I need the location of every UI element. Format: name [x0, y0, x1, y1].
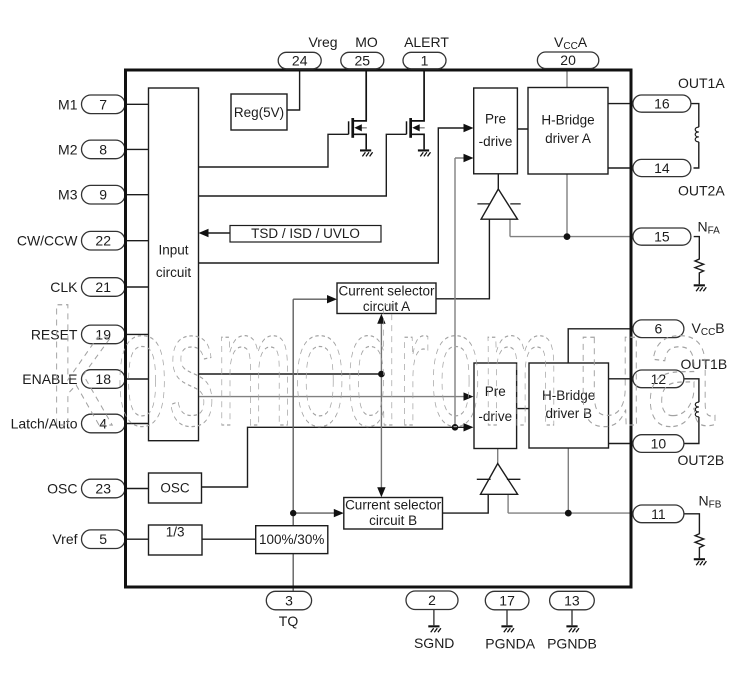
svg-text:5: 5	[99, 531, 107, 547]
svg-text:TSD / ISD / UVLO: TSD / ISD / UVLO	[251, 226, 360, 241]
svg-text:11: 11	[651, 506, 666, 522]
svg-text:23: 23	[95, 481, 111, 497]
svg-text:2: 2	[428, 592, 436, 608]
svg-text:PGNDA: PGNDA	[485, 636, 535, 652]
svg-text:14: 14	[654, 160, 670, 176]
svg-text:22: 22	[95, 233, 111, 249]
svg-text:7: 7	[99, 96, 107, 112]
svg-text:Reg(5V): Reg(5V)	[234, 105, 284, 120]
svg-text:OUT2A: OUT2A	[678, 183, 725, 199]
svg-text:9: 9	[99, 187, 107, 203]
svg-text:OSC: OSC	[160, 481, 190, 496]
svg-text:osmodrom: osmodrom	[116, 276, 560, 461]
svg-text:M3: M3	[58, 187, 78, 203]
svg-text:Current selector: Current selector	[345, 498, 442, 513]
svg-text:Input: Input	[158, 243, 188, 258]
svg-text:ua: ua	[575, 276, 716, 461]
svg-text:15: 15	[654, 229, 670, 245]
svg-text:Pre: Pre	[485, 112, 506, 127]
svg-text:k: k	[48, 276, 113, 461]
svg-text:driver A: driver A	[545, 131, 591, 146]
svg-text:VCCA: VCCA	[554, 34, 588, 52]
svg-text:M2: M2	[58, 141, 78, 157]
svg-text:CW/CCW: CW/CCW	[17, 233, 78, 249]
svg-text:TQ: TQ	[279, 613, 299, 629]
svg-text:M1: M1	[58, 96, 78, 112]
svg-text:OUT1A: OUT1A	[678, 75, 725, 91]
svg-text:Vref: Vref	[52, 531, 77, 547]
svg-text:PGNDB: PGNDB	[547, 636, 597, 652]
svg-text:Vreg: Vreg	[308, 34, 337, 50]
svg-text:-drive: -drive	[479, 134, 513, 149]
svg-text:13: 13	[564, 593, 580, 609]
svg-text:100%/30%: 100%/30%	[259, 532, 324, 547]
svg-text:16: 16	[654, 96, 670, 112]
svg-text:1/3: 1/3	[166, 525, 185, 540]
svg-text:NFB: NFB	[699, 493, 722, 511]
svg-text:3: 3	[285, 593, 293, 609]
svg-text:8: 8	[99, 141, 107, 157]
svg-text:20: 20	[560, 52, 576, 68]
svg-text:H-Bridge: H-Bridge	[541, 113, 594, 128]
svg-text:MO: MO	[355, 34, 378, 50]
svg-text:25: 25	[355, 52, 371, 68]
svg-text:17: 17	[499, 593, 515, 609]
svg-text:NFA: NFA	[698, 219, 721, 237]
svg-text:1: 1	[421, 52, 429, 68]
svg-text:OSC: OSC	[47, 481, 77, 497]
svg-text:24: 24	[292, 52, 308, 68]
svg-text:ALERT: ALERT	[404, 34, 449, 50]
svg-text:SGND: SGND	[414, 635, 454, 651]
svg-text:circuit B: circuit B	[369, 513, 417, 528]
